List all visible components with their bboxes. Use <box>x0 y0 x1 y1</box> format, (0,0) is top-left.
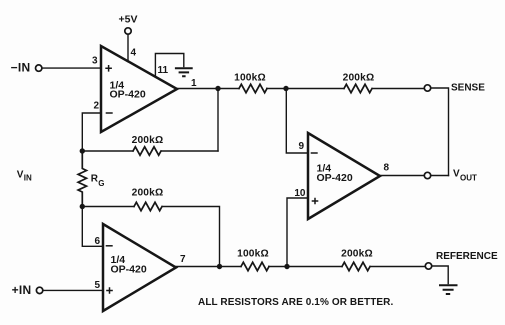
U1 plus input mark <box>105 65 112 72</box>
wire R4 to node N3 <box>163 207 220 267</box>
terminal +5V <box>119 14 138 35</box>
svg-text:11: 11 <box>158 65 169 76</box>
resistor R3 200k feedback <box>133 147 161 155</box>
wire +IN to U2 pin 5 <box>44 289 104 291</box>
resistor R3 200k label <box>132 135 164 146</box>
resistor R6 200k <box>342 262 370 270</box>
wire node N2 down to U3 pin 9 <box>286 89 308 154</box>
terminal +IN <box>12 283 43 297</box>
svg-text:OUT: OUT <box>460 174 477 183</box>
wire feedback row to node A <box>82 150 218 152</box>
svg-text:9: 9 <box>298 141 304 152</box>
U2 minus input mark <box>106 245 113 247</box>
pin 1 label <box>191 78 197 89</box>
svg-text:−IN: −IN <box>11 61 31 75</box>
resistor R5 100k label <box>237 249 269 260</box>
node B <box>80 204 85 209</box>
svg-text:OP-420: OP-420 <box>110 89 146 101</box>
resistor R2 200k <box>344 84 372 92</box>
svg-text:8: 8 <box>384 163 390 174</box>
wire U1 output row <box>177 88 239 90</box>
svg-text:100kΩ: 100kΩ <box>237 249 269 260</box>
svg-text:200kΩ: 200kΩ <box>341 249 373 260</box>
resistor R4 200k label <box>132 188 164 199</box>
resistor RG <box>78 151 86 207</box>
svg-text:4: 4 <box>131 48 137 59</box>
pin 3 label <box>92 56 98 67</box>
svg-text:200kΩ: 200kΩ <box>343 72 375 83</box>
resistor RG label <box>91 174 105 188</box>
U2 plus input mark <box>106 287 113 294</box>
wire R6 to REFERENCE <box>371 266 426 268</box>
svg-text:200kΩ: 200kΩ <box>132 135 164 146</box>
svg-text:V: V <box>453 169 460 180</box>
wire +5V to U1 pin 4 <box>127 35 129 62</box>
pin 9 label <box>298 141 304 152</box>
node A <box>80 148 85 153</box>
U1 minus input mark <box>106 112 113 114</box>
op-amp U2 1/4 OP-420 <box>103 224 176 311</box>
terminal VOUT <box>424 169 477 183</box>
svg-text:2: 2 <box>93 101 99 112</box>
pin 4 label <box>131 48 137 59</box>
svg-text:IN: IN <box>24 174 32 183</box>
svg-text:5: 5 <box>94 280 100 291</box>
op-amp U1 1/4 OP-420 <box>101 46 177 132</box>
wire node B down to U2 pin 6 <box>82 207 103 247</box>
resistor R1 100k <box>239 84 267 92</box>
terminal SENSE <box>424 83 485 94</box>
pin 7 label <box>180 254 186 265</box>
node N1 <box>215 86 220 91</box>
svg-text:G: G <box>98 179 104 188</box>
wire node N4 up to U3 pin 10 <box>287 198 308 267</box>
op-amp U3 1/4 OP-420 <box>308 133 380 219</box>
wire -IN to U1 pin 3 <box>43 67 102 69</box>
svg-text:REFERENCE: REFERENCE <box>436 251 498 262</box>
wire node B to R4 <box>82 206 134 208</box>
svg-text:3: 3 <box>92 56 98 67</box>
pin 10 label <box>294 188 306 199</box>
wire U1 pin 11 to ground <box>155 54 183 77</box>
U3 plus input mark <box>312 198 319 205</box>
resistor R4 200k feedback <box>134 202 162 210</box>
pin 11 label <box>158 65 169 76</box>
pin 2 label <box>93 101 99 112</box>
resistor R6 200k label <box>341 249 373 260</box>
node N2 <box>283 86 288 91</box>
resistor R1 100k label <box>234 72 266 83</box>
wire U3 output to VOUT <box>380 175 424 177</box>
node N3 <box>217 264 222 269</box>
wire U2 output row <box>176 266 241 268</box>
pin 6 label <box>94 236 100 247</box>
note text <box>198 297 393 308</box>
wire SENSE to VOUT bus <box>431 88 449 176</box>
svg-text:V: V <box>17 170 24 181</box>
svg-text:ALL RESISTORS ARE 0.1% OR BETT: ALL RESISTORS ARE 0.1% OR BETTER. <box>198 297 393 308</box>
ground G2 <box>439 285 458 294</box>
svg-text:100kΩ: 100kΩ <box>234 72 266 83</box>
svg-text:10: 10 <box>294 188 306 199</box>
pin 8 label <box>384 163 390 174</box>
node N4 <box>284 264 289 269</box>
svg-text:+IN: +IN <box>12 283 32 297</box>
svg-text:200kΩ: 200kΩ <box>132 188 164 199</box>
svg-text:OP-420: OP-420 <box>111 264 147 276</box>
wire U1 feedback vertical <box>217 89 219 152</box>
resistor R2 200k label <box>343 72 375 83</box>
svg-text:+5V: +5V <box>119 14 138 26</box>
svg-text:SENSE: SENSE <box>451 83 485 94</box>
svg-text:6: 6 <box>94 236 100 247</box>
wire R2 to SENSE <box>373 88 425 90</box>
ground G1 <box>175 68 193 76</box>
U3 minus input mark <box>311 152 318 154</box>
terminal -IN <box>11 61 42 75</box>
svg-text:7: 7 <box>180 254 186 265</box>
label VIN <box>17 170 32 183</box>
wire VOUT to bus <box>431 175 449 177</box>
svg-text:OP-420: OP-420 <box>317 172 353 184</box>
pin 5 label <box>94 280 100 291</box>
wire R1 to node N2 <box>267 88 344 90</box>
svg-text:1: 1 <box>191 78 197 89</box>
terminal REFERENCE <box>425 251 498 269</box>
resistor R5 100k <box>241 262 269 270</box>
wire REFERENCE to ground <box>432 266 449 284</box>
wire R5 to node N4 <box>269 266 342 268</box>
wire node A up to U1 pin 2 <box>82 113 101 151</box>
